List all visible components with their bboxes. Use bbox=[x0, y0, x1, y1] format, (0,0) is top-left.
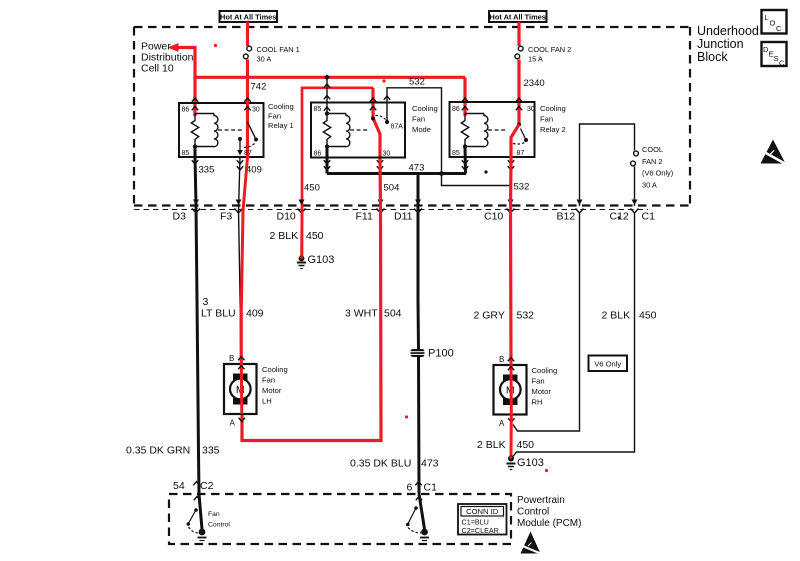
svg-text:Relay 2: Relay 2 bbox=[540, 125, 566, 134]
svg-text:532: 532 bbox=[514, 182, 530, 193]
svg-text:86: 86 bbox=[452, 106, 460, 113]
svg-text:G103: G103 bbox=[308, 254, 335, 266]
svg-text:LT BLU: LT BLU bbox=[201, 308, 236, 320]
wire red 532 C10 down to motor RH B bbox=[509, 160, 513, 362]
svg-text:Relay 1: Relay 1 bbox=[268, 121, 294, 130]
ESD symbol right bbox=[761, 140, 788, 166]
svg-text:COOL FAN 2: COOL FAN 2 bbox=[528, 45, 571, 54]
svg-text:B12: B12 bbox=[557, 211, 576, 223]
CONN ID legend box bbox=[458, 504, 507, 535]
label Cooling Fan Motor LH bbox=[262, 365, 288, 406]
svg-text:S: S bbox=[774, 54, 779, 63]
label Cooling Fan Motor RH bbox=[532, 366, 558, 407]
svg-text:D10: D10 bbox=[277, 211, 296, 223]
label Cooling Fan Mode bbox=[412, 104, 438, 134]
svg-text:C1: C1 bbox=[642, 211, 656, 223]
LOC icon box bbox=[762, 10, 787, 34]
connector forks below row bbox=[192, 209, 639, 214]
svg-text:Fan: Fan bbox=[540, 115, 553, 124]
label 2 BLK 450 (D10) bbox=[270, 230, 324, 242]
wire 2340 red fuse2 down to relay2 pin30 bbox=[517, 60, 520, 126]
svg-text:409: 409 bbox=[246, 165, 262, 176]
svg-text:RH: RH bbox=[532, 398, 543, 407]
svg-text:6: 6 bbox=[407, 482, 413, 494]
node junction dot on bus for mode relay pin85 bbox=[325, 75, 330, 80]
svg-text:86: 86 bbox=[314, 151, 322, 158]
wire red mode relay switch feed bbox=[373, 88, 380, 160]
PCM pin labels 54 C2 bbox=[173, 480, 214, 492]
wire COOL FAN 2 V6 branch bbox=[580, 124, 635, 206]
svg-text:Cooling: Cooling bbox=[412, 104, 438, 113]
underhood junction block dashed border bbox=[134, 27, 690, 206]
relay K3 Cooling Fan Mode box bbox=[311, 103, 405, 158]
relay2 switch red arm to 87 bbox=[517, 123, 521, 127]
mode relay pin labels bbox=[314, 106, 404, 158]
svg-text:87A: 87A bbox=[391, 124, 404, 131]
svg-text:504: 504 bbox=[384, 308, 402, 320]
relay2 coil-switch dashed link bbox=[488, 129, 507, 131]
Hot At All Times box 2 bbox=[489, 11, 547, 22]
wire red 450 motor RH A to ground bbox=[510, 415, 513, 459]
wire red through motor RH bbox=[510, 362, 513, 415]
chevron marks at relay bottoms bbox=[192, 160, 514, 170]
relay1 contact 87 with arrow bbox=[238, 137, 242, 141]
label Underhood Junction Block bbox=[697, 24, 759, 64]
svg-text:C: C bbox=[776, 24, 782, 33]
svg-text:87: 87 bbox=[244, 150, 252, 157]
svg-text:3 WHT: 3 WHT bbox=[345, 308, 378, 320]
mode relay coil loop with resistor and inductor bbox=[323, 114, 350, 147]
svg-text:0.35 DK GRN: 0.35 DK GRN bbox=[126, 445, 190, 457]
svg-text:3: 3 bbox=[203, 296, 209, 308]
svg-text:Control: Control bbox=[517, 507, 549, 518]
wire D11 drop 0.35 DK BLU 473 bbox=[417, 174, 421, 350]
motor M2 Cooling Fan Motor RH bbox=[494, 365, 527, 415]
svg-text:450: 450 bbox=[304, 183, 320, 194]
svg-text:V6 Only: V6 Only bbox=[594, 360, 621, 369]
svg-text:742: 742 bbox=[251, 82, 267, 93]
stray red dots (scan artifacts) bbox=[214, 44, 548, 472]
ground G103 lower bbox=[507, 456, 544, 470]
svg-text:F11: F11 bbox=[356, 211, 373, 223]
svg-text:C2=CLEAR: C2=CLEAR bbox=[462, 526, 499, 535]
svg-text:Fan: Fan bbox=[532, 377, 545, 386]
svg-text:30 A: 30 A bbox=[257, 55, 272, 64]
svg-text:Cooling: Cooling bbox=[532, 366, 558, 375]
connector arrows above row bbox=[193, 200, 638, 206]
wire D3 0.35 DK GRN 335 thick black down to PCM bbox=[195, 157, 199, 494]
wire red relay1 pin30 through switch bbox=[246, 77, 249, 158]
svg-text:Cooling: Cooling bbox=[540, 104, 566, 113]
motor M1 Cooling Fan Motor LH bbox=[224, 364, 257, 414]
svg-text:A: A bbox=[230, 419, 236, 428]
V6 Only box bbox=[589, 356, 628, 372]
svg-text:54: 54 bbox=[173, 480, 185, 492]
svg-text:F3: F3 bbox=[220, 211, 232, 223]
svg-text:B: B bbox=[229, 354, 234, 363]
PCM dashed border bbox=[169, 494, 511, 544]
svg-text:L: L bbox=[765, 13, 769, 22]
motor RH pin chevrons bbox=[508, 358, 515, 423]
wire relay1 pin85 exit bbox=[194, 147, 197, 159]
wire 409 thin black relay1-87 down to motor LH B bbox=[239, 157, 241, 362]
wire relay2 pin85 exit bbox=[464, 147, 468, 174]
svg-text:87: 87 bbox=[517, 150, 525, 157]
stray black dots bbox=[484, 170, 620, 218]
svg-text:Cooling: Cooling bbox=[268, 102, 294, 111]
svg-text:Hot At All Times: Hot At All Times bbox=[220, 13, 276, 22]
svg-text:Control: Control bbox=[208, 522, 230, 529]
wire red feed from Hot box1 to fuse COOL FAN 1 bbox=[246, 22, 249, 46]
svg-text:532: 532 bbox=[517, 310, 535, 322]
svg-text:450: 450 bbox=[517, 439, 535, 451]
connector row labels bbox=[173, 211, 656, 223]
svg-text:C10: C10 bbox=[484, 211, 503, 223]
svg-text:450: 450 bbox=[639, 310, 657, 322]
relay1 pin labels bbox=[182, 107, 260, 158]
wire red 504 F11 down and over to motor LH A bbox=[242, 160, 381, 441]
mode relay coil-switch dashed link bbox=[350, 129, 370, 131]
PCM driver Fan Control (left) bbox=[187, 494, 207, 541]
relay2 coil loop with resistor and inductor bbox=[461, 114, 488, 147]
svg-text:Fan: Fan bbox=[262, 376, 275, 385]
mode relay switch pivot dot bbox=[371, 117, 375, 121]
svg-text:30: 30 bbox=[383, 151, 391, 158]
relay K1 Cooling Fan Relay 1 box bbox=[179, 103, 264, 157]
label Powertrain Control Module (PCM) bbox=[517, 495, 581, 529]
svg-text:2 BLK: 2 BLK bbox=[477, 439, 506, 451]
svg-text:Module (PCM): Module (PCM) bbox=[517, 518, 581, 529]
svg-text:FAN 2: FAN 2 bbox=[642, 157, 663, 166]
svg-text:(V6 Only): (V6 Only) bbox=[642, 169, 673, 178]
svg-text:85: 85 bbox=[182, 150, 190, 157]
PCM entry chevrons left bbox=[193, 482, 422, 501]
relay1 coil loop with resistor and inductor bbox=[191, 114, 218, 147]
svg-text:30: 30 bbox=[252, 107, 260, 114]
wire B12 thin black to motor RH A bbox=[513, 213, 580, 431]
PCM pin labels 6 C1 bbox=[407, 482, 438, 494]
svg-text:2340: 2340 bbox=[524, 78, 545, 89]
svg-text:Block: Block bbox=[697, 50, 728, 64]
wire D11 below P100 to PCM bbox=[417, 357, 421, 494]
svg-text:B: B bbox=[499, 355, 504, 364]
relay2 NC contact bbox=[524, 138, 528, 142]
label Cooling Fan Relay 2 bbox=[540, 104, 566, 134]
svg-text:335: 335 bbox=[199, 165, 215, 176]
wire red through motor LH bbox=[240, 362, 244, 414]
svg-text:P100: P100 bbox=[428, 348, 454, 360]
svg-text:86: 86 bbox=[182, 107, 190, 114]
svg-text:COOL FAN 1: COOL FAN 1 bbox=[257, 45, 300, 54]
chevron marks at relay tops bbox=[192, 84, 522, 111]
wire mode relay pin85 from bus (black) bbox=[326, 77, 328, 114]
wire red relay2 pin86 feed bbox=[463, 77, 466, 116]
node dot 532 crossing bbox=[439, 171, 444, 176]
fuse COOL FAN 2 (V6 Only) 30A bbox=[631, 151, 639, 166]
svg-text:Powertrain: Powertrain bbox=[517, 495, 565, 506]
fuse COOL FAN 1 30A bbox=[243, 46, 251, 59]
relay1 coil bottom node bbox=[193, 144, 197, 148]
svg-text:Mode: Mode bbox=[412, 125, 431, 134]
svg-text:0.35 DK BLU: 0.35 DK BLU bbox=[350, 458, 411, 470]
svg-text:Hot At All Times: Hot At All Times bbox=[489, 13, 545, 22]
svg-text:Junction: Junction bbox=[697, 37, 744, 51]
labels 0.35 DK GRN 335 bbox=[126, 445, 220, 457]
svg-text:532: 532 bbox=[409, 77, 425, 88]
svg-text:473: 473 bbox=[421, 458, 439, 470]
svg-text:85: 85 bbox=[452, 150, 460, 157]
splice P100 bbox=[411, 348, 454, 360]
label 2 BLK 450 lower bbox=[477, 439, 534, 451]
junction block connector row thin dashed line bbox=[134, 209, 648, 211]
svg-text:15 A: 15 A bbox=[528, 55, 543, 64]
wire red mode relay ground-path horizontal to D10 bbox=[302, 88, 373, 258]
fuse COOL FAN 2 15A bbox=[515, 46, 523, 59]
svg-text:A: A bbox=[499, 419, 505, 428]
label 2 BLK 450 right column bbox=[602, 310, 657, 322]
label 3 WHT 504 bbox=[345, 308, 402, 320]
motor LH pin chevrons bbox=[238, 357, 245, 422]
relay K2 Cooling Fan Relay 2 box bbox=[450, 102, 535, 157]
relay2 pin labels bbox=[452, 106, 535, 157]
mode relay contact 87A bbox=[386, 103, 388, 123]
wire C12 thin black to ground G103 bbox=[512, 213, 635, 459]
wire red to Power Distribution arrow bbox=[176, 48, 195, 79]
svg-text:Underhood: Underhood bbox=[697, 24, 759, 38]
svg-text:2 BLK: 2 BLK bbox=[270, 230, 299, 242]
svg-text:C1: C1 bbox=[424, 482, 438, 494]
wire red fuse1 to bus bbox=[246, 60, 249, 80]
wire 473 thick black horizontal mode86 to relay2-85 bbox=[327, 172, 466, 175]
ground G103 upper bbox=[297, 254, 334, 269]
svg-text:30 A: 30 A bbox=[642, 181, 657, 190]
svg-text:409: 409 bbox=[246, 308, 264, 320]
svg-text:Motor: Motor bbox=[532, 387, 552, 396]
svg-text:450: 450 bbox=[306, 230, 324, 242]
svg-text:O: O bbox=[770, 19, 776, 28]
wire red 409 highlight relay1 to motor LH bbox=[241, 157, 247, 362]
relay1 switch arm bbox=[248, 122, 257, 140]
label Power Distribution Cell 10 bbox=[141, 41, 194, 75]
wire 532 thin black from 87A up and over to C10 branch bbox=[387, 88, 510, 186]
wire mode relay pin86 exit bbox=[326, 147, 329, 174]
svg-text:D3: D3 bbox=[173, 211, 187, 223]
DESC icon box bbox=[762, 42, 787, 68]
svg-text:COOL: COOL bbox=[642, 145, 663, 154]
svg-text:CONN ID: CONN ID bbox=[466, 507, 499, 516]
svg-text:Cooling: Cooling bbox=[262, 365, 288, 374]
PCM driver (right, 6 C1) bbox=[406, 494, 429, 541]
label 2 GRY 532 bbox=[474, 310, 535, 322]
svg-text:335: 335 bbox=[202, 445, 220, 457]
svg-text:Motor: Motor bbox=[262, 386, 282, 395]
label Fan Control bbox=[208, 511, 230, 529]
svg-text:Cell 10: Cell 10 bbox=[141, 63, 174, 75]
svg-text:2 BLK: 2 BLK bbox=[602, 310, 631, 322]
svg-text:504: 504 bbox=[384, 183, 400, 194]
svg-text:G103: G103 bbox=[517, 457, 544, 469]
wire red feed from Hot box2 to fuse COOL FAN 2 bbox=[517, 22, 520, 46]
wire red 450 D10 to ground G103 bbox=[300, 211, 303, 258]
svg-text:LH: LH bbox=[262, 397, 272, 406]
wire red bus 742 horizontal bbox=[195, 76, 465, 79]
svg-text:D11: D11 bbox=[394, 211, 413, 223]
svg-text:Fan: Fan bbox=[268, 112, 281, 121]
svg-text:85: 85 bbox=[314, 106, 322, 113]
svg-text:C: C bbox=[779, 59, 785, 68]
svg-text:C2: C2 bbox=[200, 480, 214, 492]
svg-text:473: 473 bbox=[409, 163, 425, 174]
Hot At All Times box 1 bbox=[220, 11, 278, 22]
svg-text:Fan: Fan bbox=[208, 511, 220, 518]
label 3 LT BLU 409 bbox=[201, 296, 264, 320]
labels 0.35 DK BLU 473 bbox=[350, 458, 439, 470]
label Cooling Fan Relay 1 bbox=[268, 102, 294, 130]
svg-text:30: 30 bbox=[527, 106, 535, 113]
svg-text:2 GRY: 2 GRY bbox=[474, 310, 505, 322]
mode relay dashed arc to 87A bbox=[376, 115, 386, 119]
relay1 coil-switch dashed link bbox=[218, 129, 244, 131]
svg-text:Fan: Fan bbox=[412, 115, 425, 124]
wire red relay1 pin86 feed bbox=[193, 77, 196, 116]
ESD symbol at PCM bbox=[521, 532, 544, 555]
